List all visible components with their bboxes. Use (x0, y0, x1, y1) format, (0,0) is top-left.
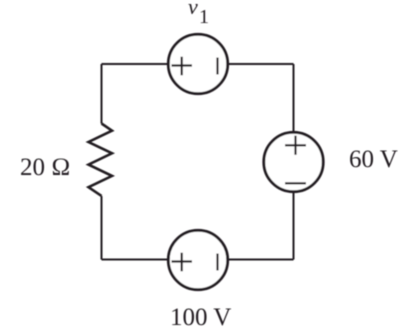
resistor 20 ohm zigzag (89, 124, 113, 196)
label 100 V (170, 304, 231, 331)
label 20 ohm (20, 154, 70, 181)
voltage source 60V circle (264, 132, 323, 191)
voltage source v1 circle (168, 34, 227, 93)
100V plus sign (172, 253, 193, 271)
svg-text:v: v (188, 0, 198, 19)
wire left upper (101, 64, 103, 124)
v1 plus sign (172, 57, 193, 76)
svg-text:100 V: 100 V (170, 304, 231, 331)
v1 minus bar (216, 58, 218, 75)
60V minus sign (285, 182, 306, 184)
60V plus sign (285, 136, 306, 155)
label 60 V (349, 146, 398, 173)
svg-text:1: 1 (199, 6, 209, 28)
svg-text:60 V: 60 V (349, 146, 398, 173)
wire bottom (102, 259, 294, 261)
svg-text:20 Ω: 20 Ω (20, 154, 70, 181)
wire top (102, 63, 294, 65)
voltage source 100V circle (168, 230, 227, 289)
wire left lower (101, 196, 103, 260)
100V minus bar (216, 254, 218, 271)
wire right (293, 64, 295, 260)
label v1 (188, 0, 209, 28)
